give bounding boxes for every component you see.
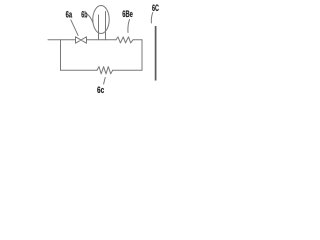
svg-text:6a: 6a [66, 9, 73, 20]
wire: top rail right segment [133, 39, 142, 41]
wire: top rail middle segment [87, 39, 117, 41]
wire: left vertical drop [60, 40, 62, 71]
wire: top rail left segment [48, 39, 76, 41]
bulb 6b right electrode lead [105, 12, 107, 40]
wall 6C (tall vertical line) [155, 26, 157, 81]
leader line for label 6Be [128, 20, 130, 33]
resistor 6Be (zigzag on top rail) [116, 37, 133, 43]
leader line for label 6b [88, 15, 93, 23]
leader line for label 6a [71, 20, 78, 36]
resistor 6c (zigzag on bottom rail) [97, 67, 113, 74]
wire: right vertical drop [141, 40, 143, 71]
svg-text:6c: 6c [97, 85, 104, 96]
svg-text:6b: 6b [81, 9, 87, 20]
leader line for label 6C [151, 13, 152, 24]
bulb 6b left electrode lead [98, 15, 100, 40]
leader line for label 6c [104, 78, 106, 85]
wire: bottom rail right segment [113, 69, 142, 71]
valve 6a (bowtie symbol) [76, 37, 87, 43]
wire: bottom rail left segment [61, 69, 98, 71]
svg-text:6Be: 6Be [122, 9, 133, 20]
bulb 6b (ellipse envelope) [93, 6, 109, 34]
svg-text:6C: 6C [152, 3, 159, 14]
